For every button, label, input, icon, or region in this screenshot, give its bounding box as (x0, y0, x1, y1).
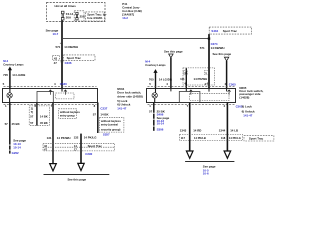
svg-text:117: 117 (181, 136, 186, 140)
wire: sport trac branch (185, 68, 187, 88)
svg-text:13-2: 13-2 (122, 16, 128, 20)
wire: unlock jog leg (80, 134, 82, 164)
arrow: driver unlock to this page (78, 163, 84, 170)
option dashed row 117 118 (180, 134, 243, 140)
wire stub pin4 (61, 88, 63, 91)
svg-text:14 PK/WH: 14 PK/WH (194, 77, 208, 81)
lamp symbol (7, 93, 12, 98)
wire arrow from courtesy lamps (8, 67, 12, 71)
switch contact arrows right (189, 90, 192, 95)
switch contact housing (37, 92, 53, 103)
svg-text:Courtesy Lamps: Courtesy Lamps (145, 63, 166, 67)
svg-text:57: 57 (30, 121, 34, 125)
svg-text:57: 57 (149, 109, 153, 113)
svg-text:C236: C236 (65, 61, 72, 65)
svg-text:47: 47 (54, 61, 58, 65)
fuse 25A (76, 12, 78, 20)
node: junction at right wire (208, 37, 210, 39)
svg-text:without keyless: without keyless (100, 119, 122, 123)
svg-text:C530: C530 (60, 82, 67, 86)
svg-text:entry (central: entry (central (101, 123, 118, 127)
note box: without keyless entry central (99, 118, 124, 132)
svg-text:42: 42 (44, 144, 47, 148)
lamp symbol right (152, 93, 157, 98)
wire stubs to right lamp (154, 88, 157, 102)
wire: switch option leg (36, 103, 38, 126)
arrow: passenger lock to this page (186, 151, 193, 158)
svg-text:S257: S257 (103, 133, 110, 137)
svg-text:C505: C505 (229, 82, 236, 86)
svg-text:(14028): (14028) (239, 95, 249, 99)
wire: horizontal bus (62, 38, 209, 40)
svg-text:14 PK/LB: 14 PK/LB (194, 136, 206, 140)
svg-text:14 PK/LG: 14 PK/LG (229, 136, 241, 140)
svg-text:Sport Trac: Sport Trac (67, 56, 82, 60)
svg-text:571: 571 (55, 45, 60, 49)
wire: unlock output driver (97, 103, 99, 134)
svg-text:14: 14 (74, 144, 77, 148)
svg-text:See this page: See this page (67, 177, 86, 181)
svg-text:G202: G202 (12, 151, 19, 155)
arrow: feed from this page (middle) (169, 54, 173, 58)
svg-text:10-14: 10-14 (13, 145, 21, 149)
svg-text:security group): security group) (101, 128, 121, 132)
svg-text:7): 7) (31, 110, 34, 114)
rail: right see page (185, 161, 234, 163)
svg-text:14 DB/WH: 14 DB/WH (64, 45, 78, 49)
svg-text:fore 3/19/01: fore 3/19/01 (87, 16, 103, 20)
driver door lock switch N504 box (3, 89, 98, 103)
svg-text:10-7: 10-7 (53, 32, 59, 36)
svg-text:47: 47 (44, 148, 47, 152)
svg-text:Hot at all times: Hot at all times (55, 4, 77, 8)
switch contact housing right (179, 92, 200, 103)
svg-text:45 BK: 45 BK (40, 121, 48, 125)
wire: passenger unlock output (226, 103, 228, 152)
sport trac dashed region at passenger switch (183, 68, 215, 85)
wire: courtesy feed right (155, 72, 157, 88)
svg-text:14 BK: 14 BK (100, 113, 109, 117)
svg-text:14 BK: 14 BK (40, 114, 48, 118)
wire: passenger lock output (189, 103, 191, 152)
svg-text:C237: C237 (100, 106, 107, 110)
connector pin 42 dashed cell (52, 55, 59, 60)
wire: sport trac feed (226, 61, 228, 88)
svg-text:42: 42 (54, 56, 58, 60)
svg-text:20A: 20A (66, 15, 72, 19)
splice S434 sport trac dashed box (209, 27, 251, 34)
svg-text:132: 132 (74, 136, 79, 140)
wire stubs to lamp (9, 88, 11, 102)
svg-text:25A: 25A (80, 15, 86, 19)
svg-text:57: 57 (30, 114, 34, 118)
connector cell pin 1 (branch) (184, 70, 188, 74)
rail: left see this page (44, 174, 110, 176)
dashed option edges of driver switch box (4, 86, 97, 104)
wire stubs into right box (171, 88, 227, 91)
switch dashed link (56, 93, 74, 99)
passenger door lock switch N605 box (147, 89, 236, 103)
arrow: feed from this page (right) (224, 57, 228, 61)
wire: middle feed (170, 58, 172, 88)
wire: right main feed (208, 34, 210, 88)
svg-text:See this page: See this page (213, 52, 232, 56)
note box: without keyless entry (59, 109, 77, 119)
connector tick on main feed (60, 42, 62, 44)
arrow: driver lock to this page (50, 164, 57, 171)
wire: lock output driver (52, 103, 54, 164)
svg-text:10-6: 10-6 (203, 172, 209, 176)
svg-text:141-47: 141-47 (243, 114, 252, 118)
svg-text:5) Lock: 5) Lock (242, 105, 253, 109)
wire: fuse output, main feed (61, 20, 63, 88)
svg-text:M-4: M-4 (3, 59, 8, 63)
svg-text:14 PK/LG: 14 PK/LG (84, 136, 98, 140)
wire arrow from courtesy lamps (right) (153, 69, 157, 73)
svg-text:45 BK: 45 BK (12, 122, 21, 126)
svg-text:S434: S434 (211, 29, 218, 33)
svg-text:14 RD: 14 RD (193, 129, 201, 133)
svg-text:14 LB: 14 LB (230, 129, 238, 133)
connector ticks (60, 61, 63, 62)
fuse F2.14 20A (61, 11, 64, 20)
svg-text:Sport Trac: Sport Trac (249, 137, 264, 141)
option dashed box with 57 14 BK (29, 106, 49, 125)
svg-text:See this page: See this page (164, 50, 183, 54)
svg-text:131: 131 (47, 136, 52, 140)
note box: Sport Trac before (86, 12, 105, 21)
svg-text:1343: 1343 (180, 129, 187, 133)
arrow: passenger unlock to this page (224, 151, 231, 158)
svg-text:57: 57 (93, 113, 97, 117)
wire: courtesy feed (9, 70, 11, 88)
svg-text:Courtesy Lamps: Courtesy Lamps (3, 63, 24, 67)
svg-text:141-47: 141-47 (117, 106, 126, 110)
svg-text:without keyless: without keyless (59, 110, 81, 114)
svg-text:14 PK/WH: 14 PK/WH (57, 136, 71, 140)
svg-text:10-14: 10-14 (157, 122, 165, 126)
note box: Sport Trac at connector (64, 55, 95, 61)
svg-text:1344: 1344 (219, 129, 226, 133)
svg-text:17: 17 (74, 148, 77, 152)
connector cell pin 1 (main) (204, 70, 208, 74)
svg-text:M-4: M-4 (145, 59, 150, 63)
svg-text:Sport Trac: Sport Trac (223, 29, 238, 33)
dashed option edges of passenger switch box (148, 86, 235, 104)
wire: passenger switch ground (153, 103, 155, 131)
svg-text:111: 111 (180, 77, 185, 81)
svg-text:57: 57 (5, 122, 9, 126)
svg-text:705: 705 (3, 73, 8, 77)
svg-text:14 DB/WH: 14 DB/WH (211, 46, 225, 50)
svg-text:entry group: entry group (60, 113, 75, 117)
note box: Sport Trac bottom right (244, 136, 274, 141)
switch contact arrows (49, 90, 52, 95)
central junction box dashed outline (47, 3, 106, 22)
svg-text:571: 571 (200, 46, 205, 50)
svg-text:Sport Trac: Sport Trac (88, 144, 103, 148)
connector dashed box with Sport Trac (43, 143, 115, 151)
switch dashed link right (190, 94, 229, 101)
svg-text:118: 118 (221, 136, 226, 140)
fuse 25A dashed option box (74, 11, 84, 21)
svg-text:14 LG/DB: 14 LG/DB (12, 73, 25, 77)
svg-text:C290: C290 (85, 152, 92, 156)
wire: driver switch ground (9, 103, 11, 154)
svg-text:S306: S306 (157, 128, 164, 132)
